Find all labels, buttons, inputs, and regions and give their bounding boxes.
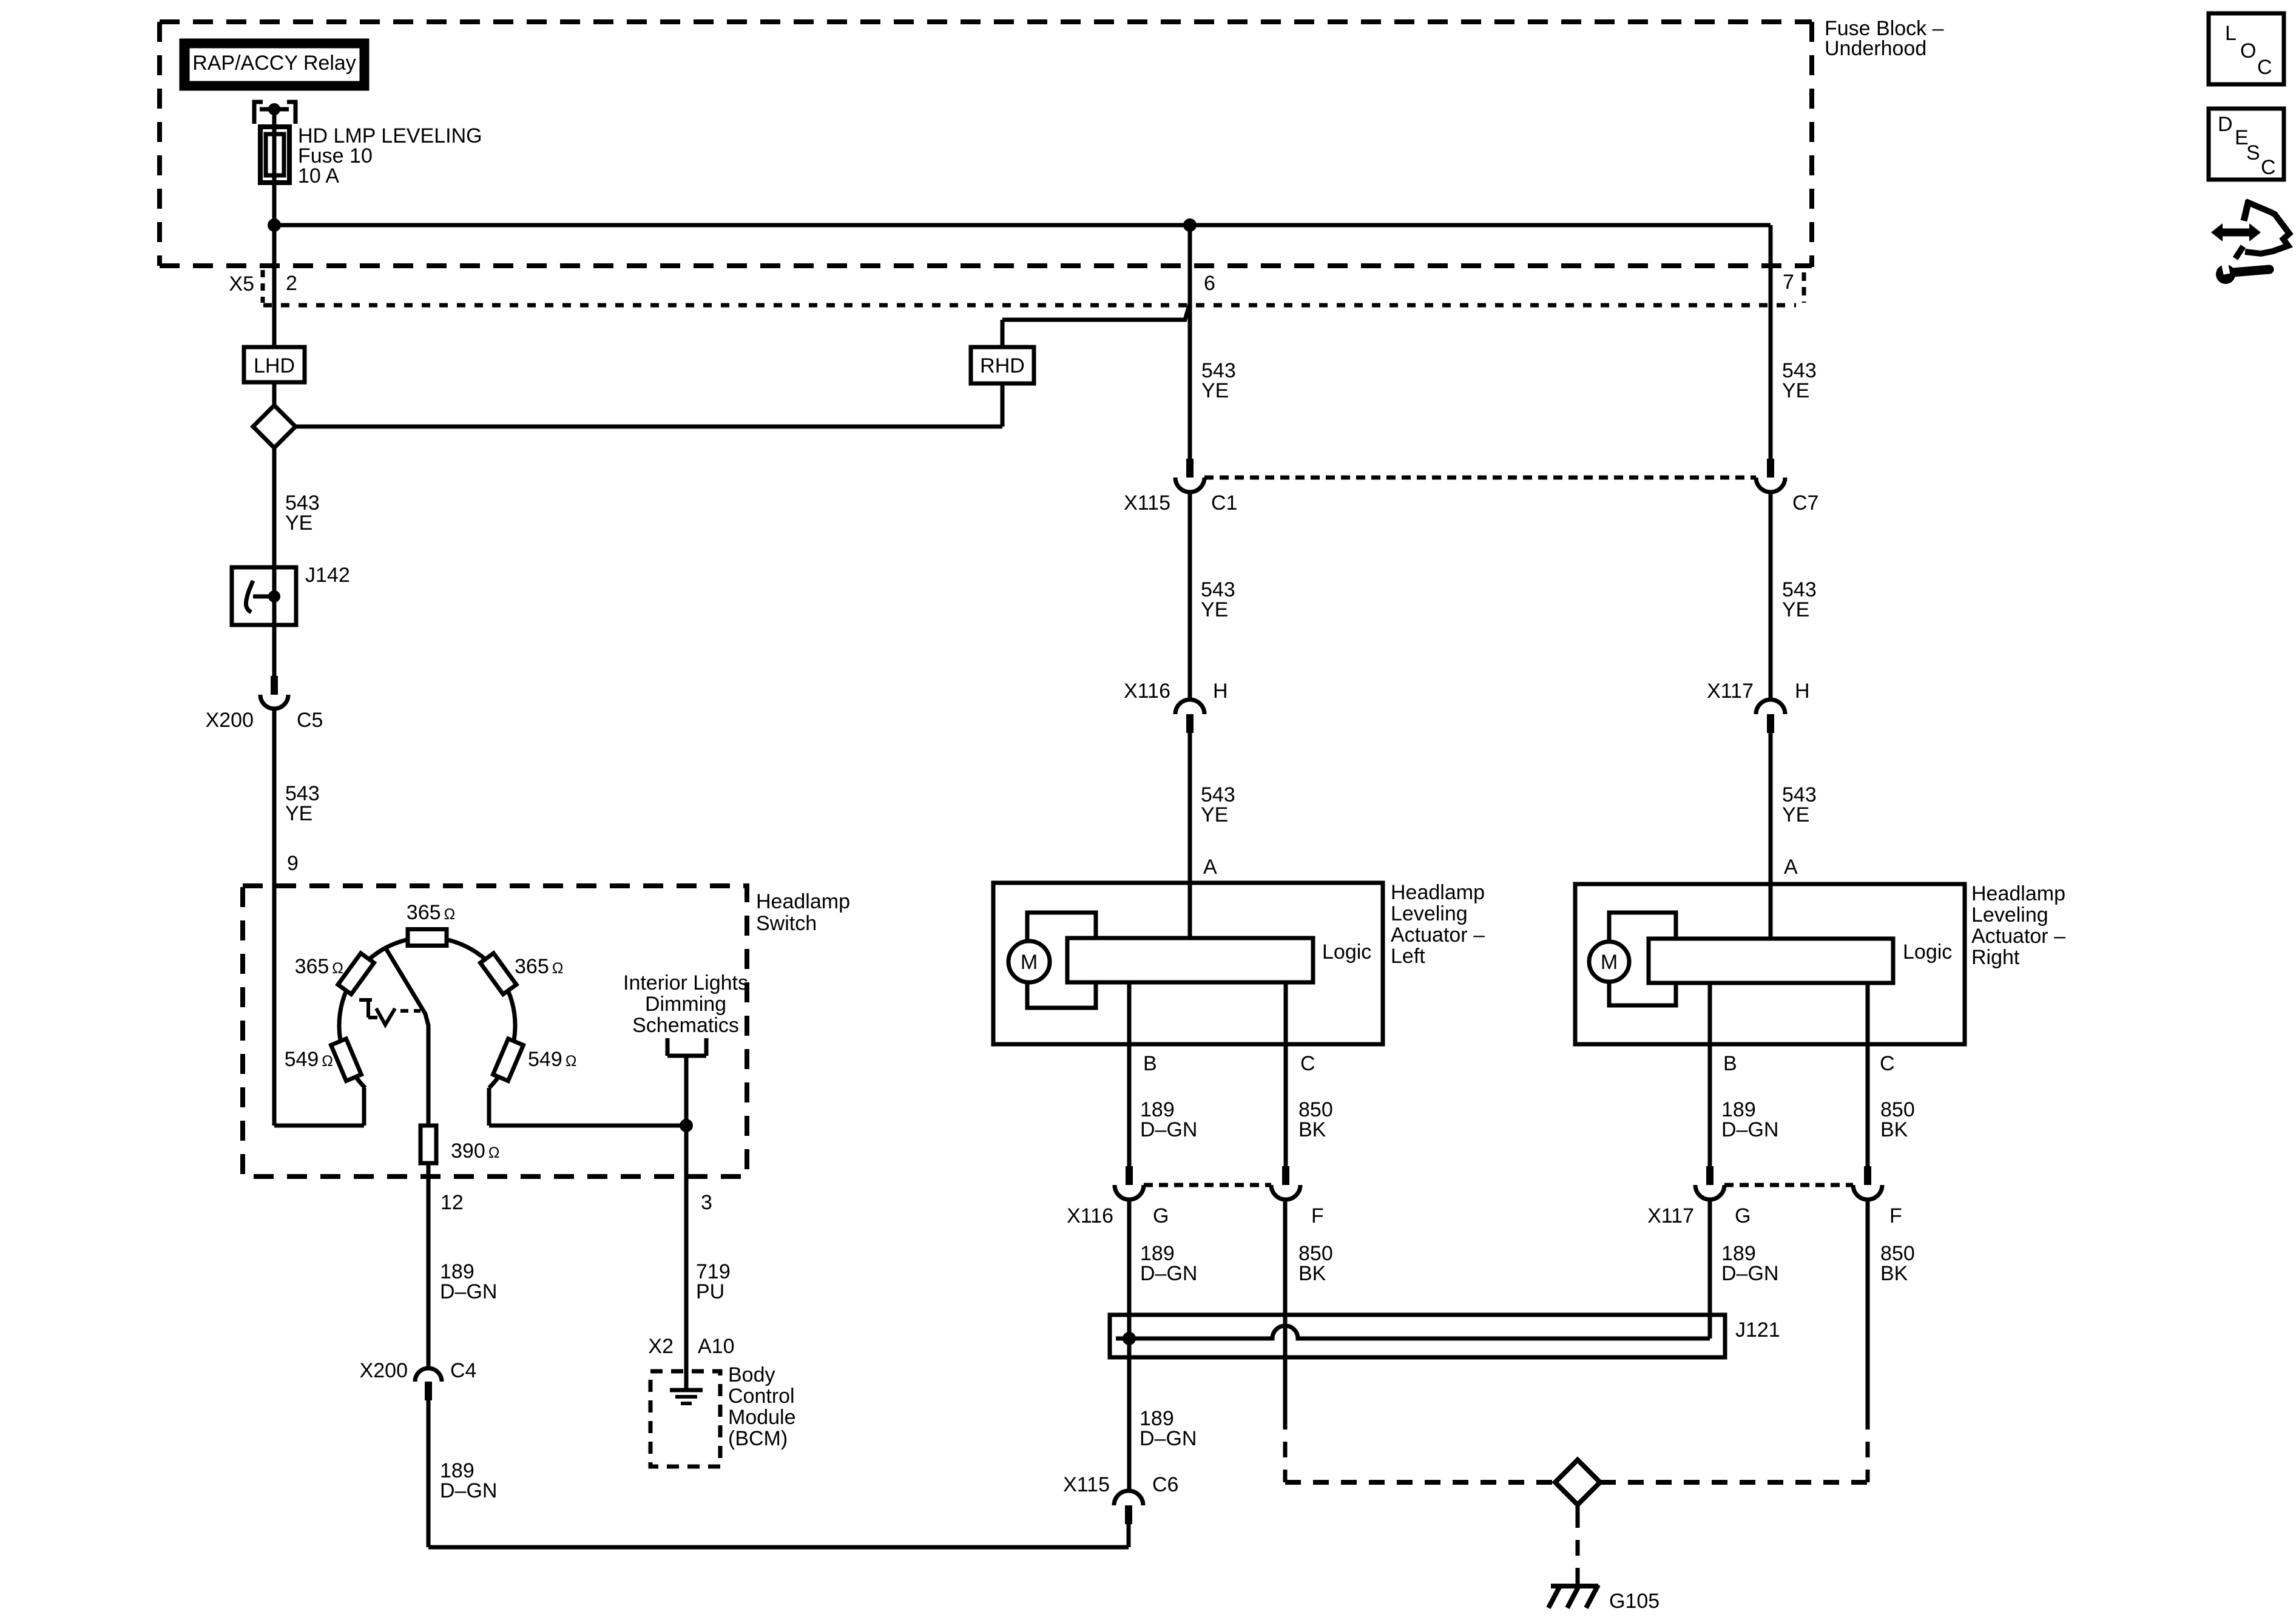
svg-text:Headlamp: Headlamp [756, 890, 850, 913]
svg-text:B: B [1143, 1052, 1157, 1075]
svg-text:RAP/ACCY Relay: RAP/ACCY Relay [192, 52, 356, 75]
svg-text:X115: X115 [1063, 1473, 1110, 1496]
svg-text:X200: X200 [206, 709, 254, 732]
svg-text:X2: X2 [648, 1335, 674, 1358]
svg-text:C: C [2261, 156, 2276, 179]
svg-text:H: H [1795, 680, 1810, 703]
svg-text:J121: J121 [1735, 1318, 1780, 1342]
svg-text:Body: Body [728, 1363, 775, 1386]
svg-text:RHD: RHD [980, 354, 1025, 377]
svg-text:Actuator –: Actuator – [1971, 925, 2065, 948]
svg-text:X115: X115 [1124, 491, 1170, 515]
svg-text:X5: X5 [229, 272, 254, 295]
svg-text:X117: X117 [1707, 680, 1754, 703]
svg-text:3: 3 [701, 1191, 712, 1214]
svg-text:YE: YE [1201, 598, 1228, 621]
svg-text:G105: G105 [1609, 1590, 1660, 1613]
svg-text:Left: Left [1391, 945, 1425, 968]
svg-text:2: 2 [286, 272, 297, 295]
svg-text:Logic: Logic [1322, 940, 1371, 964]
svg-text:J142: J142 [305, 564, 350, 587]
svg-text:H: H [1213, 680, 1228, 703]
svg-text:S: S [2246, 141, 2260, 164]
svg-text:Interior Lights: Interior Lights [623, 971, 748, 994]
svg-text:C1: C1 [1211, 491, 1237, 515]
svg-text:G: G [1153, 1204, 1169, 1227]
svg-text:YE: YE [1201, 379, 1229, 402]
svg-text:Headlamp: Headlamp [1971, 882, 2065, 905]
svg-text:10 A: 10 A [298, 164, 339, 187]
svg-text:12: 12 [441, 1191, 464, 1214]
svg-text:YE: YE [285, 802, 312, 825]
svg-text:Schematics: Schematics [632, 1014, 739, 1037]
svg-text:549 Ω: 549 Ω [285, 1048, 333, 1071]
svg-text:Leveling: Leveling [1391, 902, 1468, 925]
svg-text:O: O [2240, 39, 2256, 62]
svg-text:Module: Module [728, 1406, 796, 1429]
svg-text:Underhood: Underhood [1825, 37, 1926, 60]
svg-text:365 Ω: 365 Ω [515, 955, 563, 978]
svg-text:390 Ω: 390 Ω [451, 1139, 499, 1163]
svg-text:D–GN: D–GN [1140, 1118, 1197, 1141]
svg-text:C: C [1880, 1052, 1895, 1075]
svg-text:C5: C5 [297, 709, 323, 732]
svg-text:Switch: Switch [756, 912, 817, 935]
svg-text:Leveling: Leveling [1971, 903, 2048, 927]
svg-text:D–GN: D–GN [1721, 1118, 1778, 1141]
svg-text:YE: YE [1782, 379, 1809, 402]
svg-text:X200: X200 [360, 1359, 408, 1382]
svg-text:BK: BK [1880, 1118, 1908, 1141]
svg-text:LHD: LHD [254, 354, 295, 377]
svg-text:C: C [2257, 56, 2272, 79]
svg-text:C: C [1300, 1052, 1315, 1075]
svg-text:D–GN: D–GN [1721, 1262, 1778, 1285]
svg-text:F: F [1889, 1204, 1902, 1227]
svg-text:B: B [1723, 1052, 1737, 1075]
svg-text:D–GN: D–GN [440, 1280, 497, 1303]
svg-text:(BCM): (BCM) [728, 1427, 788, 1450]
svg-text:D–GN: D–GN [440, 1479, 497, 1502]
svg-text:X117: X117 [1647, 1204, 1694, 1227]
svg-text:9: 9 [287, 852, 299, 875]
svg-text:M: M [1601, 951, 1618, 974]
svg-text:Actuator –: Actuator – [1391, 923, 1485, 947]
svg-text:M: M [1021, 951, 1038, 974]
svg-text:YE: YE [1782, 598, 1809, 621]
svg-text:Right: Right [1971, 946, 2020, 969]
svg-text:F: F [1311, 1204, 1324, 1227]
svg-text:X116: X116 [1124, 680, 1170, 703]
svg-text:L: L [2225, 22, 2237, 45]
svg-text:BK: BK [1880, 1262, 1908, 1285]
svg-text:PU: PU [696, 1280, 724, 1303]
svg-text:C7: C7 [1792, 491, 1818, 515]
svg-text:6: 6 [1204, 272, 1215, 295]
svg-text:D: D [2218, 113, 2233, 136]
svg-text:Dimming: Dimming [645, 993, 726, 1016]
svg-text:Control: Control [728, 1385, 795, 1408]
svg-text:7: 7 [1783, 271, 1794, 294]
svg-text:YE: YE [1201, 803, 1228, 826]
svg-text:D–GN: D–GN [1140, 1427, 1197, 1450]
svg-text:Headlamp: Headlamp [1391, 881, 1485, 904]
svg-text:A10: A10 [698, 1335, 735, 1358]
svg-text:YE: YE [1782, 803, 1809, 826]
svg-text:C4: C4 [450, 1359, 476, 1382]
svg-text:549 Ω: 549 Ω [528, 1048, 576, 1071]
svg-text:BK: BK [1298, 1118, 1326, 1141]
svg-text:Logic: Logic [1903, 940, 1952, 964]
svg-text:X116: X116 [1067, 1204, 1113, 1227]
svg-text:G: G [1735, 1204, 1751, 1227]
svg-text:A: A [1784, 856, 1798, 879]
svg-text:365 Ω: 365 Ω [407, 901, 455, 924]
svg-text:D–GN: D–GN [1140, 1262, 1197, 1285]
svg-text:BK: BK [1298, 1262, 1326, 1285]
svg-text:A: A [1203, 856, 1217, 879]
svg-text:365 Ω: 365 Ω [295, 955, 343, 978]
svg-text:C6: C6 [1152, 1473, 1178, 1496]
svg-text:YE: YE [285, 511, 312, 535]
